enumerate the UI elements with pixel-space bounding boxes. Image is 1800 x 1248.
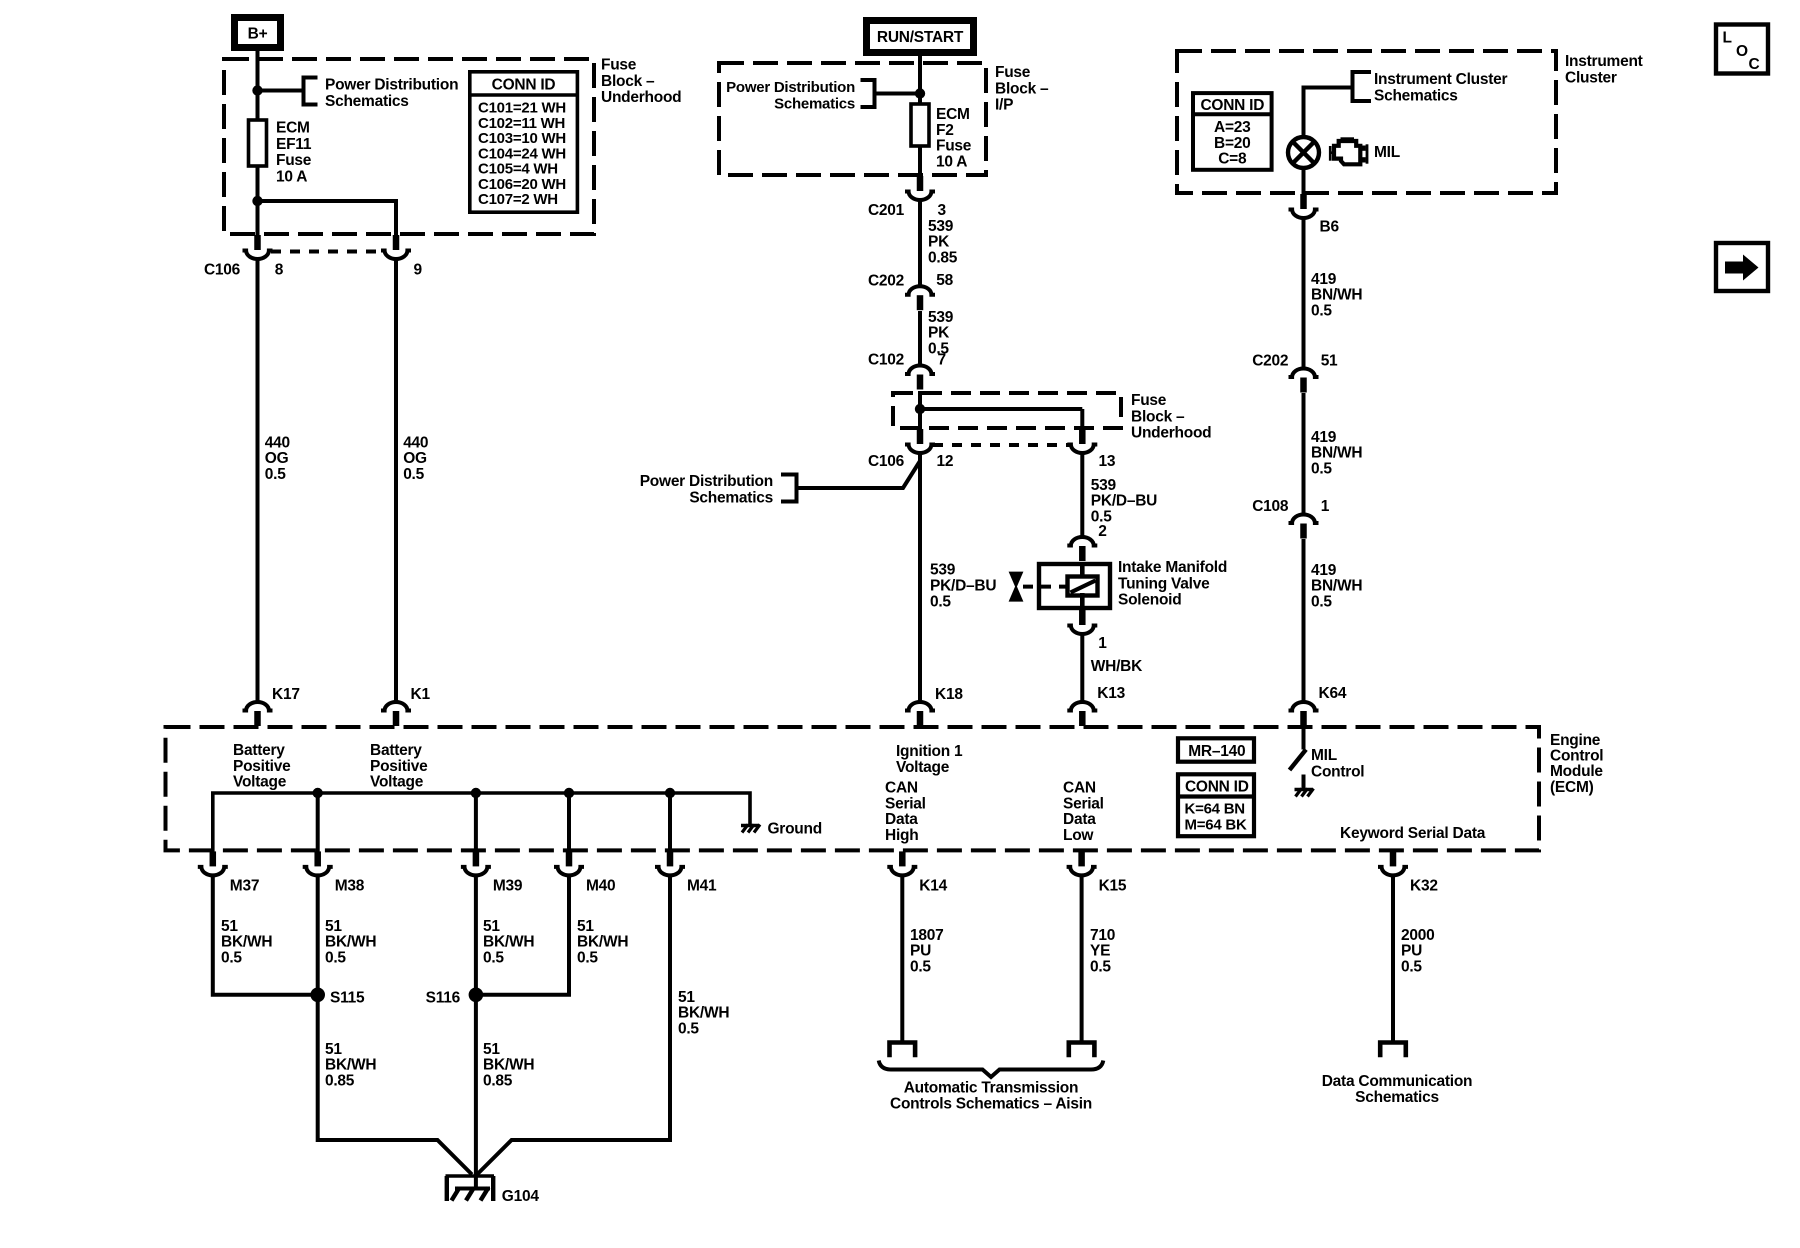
svg-text:CAN: CAN: [1063, 780, 1096, 797]
svg-text:Power Distribution: Power Distribution: [726, 79, 855, 96]
svg-text:ECM: ECM: [936, 106, 970, 123]
svg-text:CONN ID: CONN ID: [1200, 97, 1264, 114]
value label 51 BK/WH 0.85 (S116): [483, 1041, 534, 1089]
pin label B6: [1320, 219, 1340, 236]
svg-text:Power Distribution: Power Distribution: [640, 473, 773, 490]
label G104: [502, 1188, 540, 1205]
svg-text:K64: K64: [1319, 685, 1347, 702]
svg-text:0.5: 0.5: [483, 949, 504, 966]
svg-text:51: 51: [483, 1041, 500, 1058]
wire K32 down: [1391, 877, 1395, 1042]
svg-text:0.5: 0.5: [265, 466, 286, 483]
connector pin K64: [1289, 702, 1319, 726]
connector pin C202-51: [1289, 368, 1319, 392]
svg-text:Control: Control: [1311, 763, 1364, 780]
svg-text:2000: 2000: [1401, 927, 1434, 944]
svg-text:C202: C202: [868, 272, 904, 289]
svg-text:Battery: Battery: [233, 742, 285, 759]
svg-text:419: 419: [1311, 429, 1337, 446]
label Fuse Block Underhood: [601, 57, 681, 107]
pin label M38: [335, 877, 365, 894]
engine control module (ECM) dashed box: [166, 727, 1540, 850]
table CONN ID instrument cluster: [1193, 93, 1272, 170]
svg-text:Instrument: Instrument: [1565, 53, 1643, 70]
wire bus to pin 13: [920, 409, 1082, 429]
svg-text:Tuning Valve: Tuning Valve: [1118, 575, 1210, 592]
svg-text:BK/WH: BK/WH: [221, 934, 272, 951]
svg-text:419: 419: [1311, 562, 1337, 579]
svg-text:1807: 1807: [910, 927, 943, 944]
svg-text:BN/WH: BN/WH: [1311, 287, 1362, 304]
pin label K17: [272, 686, 300, 703]
svg-text:PK: PK: [928, 234, 950, 251]
svg-text:CONN ID: CONN ID: [492, 76, 556, 93]
svg-text:MIL: MIL: [1374, 144, 1400, 161]
pin number 2: [1098, 523, 1106, 540]
label Battery Positive Voltage (K17): [233, 742, 291, 791]
svg-text:12: 12: [937, 453, 954, 470]
wire fuse EF11 to junction: [256, 166, 260, 235]
pin number 9: [414, 261, 423, 278]
label ECM F2 Fuse 10 A: [936, 106, 972, 170]
value label 51 BK/WH 0.5 (M37): [221, 918, 272, 966]
svg-text:8: 8: [275, 261, 284, 278]
svg-text:M41: M41: [687, 877, 717, 894]
svg-text:Data: Data: [885, 811, 918, 828]
label Fuse Block I/P: [995, 64, 1049, 114]
svg-text:S116: S116: [426, 989, 461, 1006]
label Engine Control Module (ECM): [1550, 732, 1603, 796]
svg-text:Intake Manifold: Intake Manifold: [1118, 559, 1227, 576]
svg-text:Control: Control: [1550, 748, 1603, 765]
instrument cluster dashed box: [1177, 51, 1556, 193]
connector pin M38: [303, 851, 333, 875]
valve symbol (hourglass): [1009, 572, 1024, 602]
pin label K1: [411, 686, 431, 703]
label Power Distribution Schematics: [325, 77, 458, 110]
svg-text:CAN: CAN: [885, 780, 918, 797]
terminal K32: [1380, 1043, 1406, 1058]
pin number 1: [1098, 635, 1107, 652]
wire 440 OG left (to K17): [256, 261, 260, 702]
label C202 (right): [1252, 353, 1288, 370]
svg-text:Fuse: Fuse: [995, 64, 1031, 81]
label Automatic Transmission Controls Schematics - Aisin: [890, 1079, 1092, 1112]
connector pin C106-12: [905, 429, 935, 453]
svg-text:1: 1: [1321, 498, 1330, 515]
svg-text:Schematics: Schematics: [1374, 87, 1458, 104]
svg-text:Schematics: Schematics: [689, 489, 773, 506]
svg-text:PU: PU: [910, 943, 931, 960]
svg-text:440: 440: [403, 434, 428, 451]
value label 440 OG 0.5 (right): [403, 434, 428, 482]
label C202: [868, 272, 904, 289]
svg-text:(ECM): (ECM): [1550, 779, 1594, 796]
connector pin C201-3: [905, 176, 935, 200]
svg-text:Serial: Serial: [1063, 795, 1104, 812]
label CAN Serial Data Low: [1063, 780, 1104, 844]
connector pin K17: [243, 702, 273, 726]
wire M40 to splice S116: [476, 877, 569, 995]
svg-text:Low: Low: [1063, 827, 1094, 844]
lamp MIL (bulb): [1288, 137, 1319, 168]
svg-text:10 A: 10 A: [276, 168, 307, 185]
label Fuse Block Underhood (middle): [1131, 392, 1211, 442]
label ECM EF11 Fuse 10 A: [276, 120, 312, 186]
svg-text:BK/WH: BK/WH: [678, 1005, 729, 1022]
connector pin M39: [461, 851, 491, 875]
svg-text:0.5: 0.5: [325, 949, 346, 966]
pin label M40: [586, 877, 615, 894]
svg-text:7: 7: [938, 352, 946, 369]
label C108: [1252, 498, 1289, 515]
svg-text:Keyword Serial Data: Keyword Serial Data: [1340, 825, 1486, 842]
loc box: [1716, 25, 1768, 74]
wire junction to Power Distribution reference: [258, 89, 304, 93]
node junction M38: [313, 788, 323, 852]
pin label K13: [1097, 685, 1125, 702]
svg-text:Schematics: Schematics: [774, 95, 855, 112]
value label 440 OG 0.5 (left): [265, 434, 290, 482]
connector pin C106-9: [381, 235, 411, 259]
pin number 51: [1321, 352, 1338, 369]
svg-text:M40: M40: [586, 877, 615, 894]
wire K14 down: [900, 877, 904, 1042]
off-page reference bracket Power Distribution Schematics (I/P): [861, 80, 875, 107]
brace automatic transmission: [879, 1061, 1104, 1078]
svg-text:0.5: 0.5: [577, 949, 598, 966]
node junction M41: [665, 788, 675, 852]
node junction M39: [471, 788, 481, 852]
dashed linkage valve to coil: [1023, 585, 1067, 589]
svg-text:51: 51: [221, 918, 238, 935]
svg-text:Ignition 1: Ignition 1: [896, 743, 963, 760]
svg-text:539: 539: [1091, 477, 1117, 494]
wire S115 to ground: [318, 995, 472, 1175]
svg-text:9: 9: [414, 261, 423, 278]
value label 51 BK/WH 0.5 (M38): [325, 918, 376, 966]
svg-text:Power Distribution: Power Distribution: [325, 77, 458, 94]
terminal K15: [1069, 1043, 1095, 1058]
terminal K14: [890, 1043, 916, 1058]
svg-text:0.85: 0.85: [928, 249, 958, 266]
wire 419 BN/WH (2): [1302, 393, 1306, 513]
svg-text:51: 51: [1321, 352, 1338, 369]
value label 51 BK/WH 0.5 (M41): [678, 989, 729, 1037]
svg-text:0.5: 0.5: [1311, 460, 1332, 477]
value label 539 PK 0.85: [928, 218, 958, 266]
value label 539 PK 0.5: [928, 309, 954, 357]
svg-text:C202: C202: [1252, 353, 1288, 370]
svg-text:0.5: 0.5: [1311, 593, 1332, 610]
pin label K14: [919, 877, 947, 894]
svg-text:PK/D–BU: PK/D–BU: [1091, 493, 1157, 510]
ground G104 symbol: [446, 1176, 495, 1201]
connector pin C106-13: [1067, 429, 1097, 453]
svg-text:Block –: Block –: [995, 80, 1049, 97]
svg-text:13: 13: [1099, 453, 1116, 470]
svg-text:C106: C106: [204, 261, 241, 278]
svg-text:K32: K32: [1410, 877, 1438, 894]
label Keyword Serial Data: [1340, 825, 1486, 842]
svg-text:BK/WH: BK/WH: [483, 934, 534, 951]
svg-text:High: High: [885, 827, 918, 844]
label C201: [868, 202, 905, 219]
svg-text:Controls Schematics – Aisin: Controls Schematics – Aisin: [890, 1096, 1092, 1113]
svg-text:Voltage: Voltage: [233, 774, 287, 791]
svg-text:2: 2: [1098, 523, 1106, 540]
svg-text:Cluster: Cluster: [1565, 69, 1617, 86]
svg-text:C102: C102: [868, 352, 904, 369]
svg-text:Data: Data: [1063, 811, 1096, 828]
pin label K64: [1319, 685, 1347, 702]
svg-text:O: O: [1736, 43, 1748, 60]
svg-text:Voltage: Voltage: [370, 774, 424, 791]
connector pin C202-58: [905, 286, 935, 310]
connector pin solenoid 1: [1067, 610, 1097, 634]
value label 539 PK/D-BU 0.5 (upper): [1091, 477, 1157, 525]
label MIL: [1374, 144, 1400, 161]
label C106 (middle): [868, 453, 905, 470]
label Instrument Cluster Schematics: [1374, 71, 1508, 104]
svg-text:M38: M38: [335, 877, 365, 894]
svg-text:M39: M39: [493, 877, 523, 894]
value label 710 YE 0.5: [1090, 927, 1115, 975]
svg-text:B+: B+: [248, 26, 268, 43]
svg-text:Positive: Positive: [233, 758, 291, 775]
svg-text:0.5: 0.5: [1401, 958, 1422, 975]
wire M39 to splice S116: [474, 877, 478, 995]
connector pin C102-7: [905, 366, 935, 390]
solenoid coil box with slash: [1068, 577, 1098, 596]
connector pin K13: [1067, 702, 1097, 726]
svg-text:Voltage: Voltage: [896, 759, 950, 776]
off-page reference bracket Power Distribution Schematics (fuse block underhood): [304, 78, 318, 105]
label Ignition 1 Voltage: [896, 743, 963, 776]
svg-text:0.5: 0.5: [678, 1020, 699, 1037]
label S115: [330, 989, 365, 1006]
svg-text:0.5: 0.5: [1311, 302, 1332, 319]
svg-text:BK/WH: BK/WH: [325, 1057, 376, 1074]
svg-text:539: 539: [930, 562, 956, 579]
wire bulb to B6: [1302, 168, 1306, 194]
pin number 7: [938, 352, 946, 369]
pin label K15: [1099, 877, 1127, 894]
svg-text:51: 51: [678, 989, 695, 1006]
svg-text:0.5: 0.5: [403, 466, 424, 483]
label Battery Positive Voltage (K1): [370, 742, 428, 791]
svg-text:PU: PU: [1401, 943, 1422, 960]
value label 419 BN/WH 0.5 (2): [1311, 429, 1362, 477]
label C106: [204, 261, 241, 278]
table CONN ID (ECM): [1178, 774, 1256, 836]
svg-text:A=23: A=23: [1214, 119, 1251, 136]
connector pin M37: [198, 851, 228, 875]
value label 1807 PU 0.5: [910, 927, 943, 975]
svg-text:L: L: [1723, 30, 1732, 47]
wire 539 PK 0.5: [918, 311, 922, 364]
svg-text:1: 1: [1098, 635, 1107, 652]
wire from B+ to fuse EF11: [256, 51, 260, 120]
node junction in middle fuse block: [915, 404, 925, 414]
node junction S below fuse: [252, 196, 262, 206]
svg-text:Fuse: Fuse: [601, 57, 637, 74]
svg-text:539: 539: [928, 309, 954, 326]
wire 440 OG right (to K1): [394, 261, 398, 702]
fuse block underhood (middle) dashed box: [893, 393, 1121, 428]
value label 51 BK/WH 0.85 (S115): [325, 1041, 376, 1089]
svg-text:C107=2 WH: C107=2 WH: [478, 191, 558, 208]
connector pin solenoid 2: [1067, 537, 1097, 561]
svg-text:Instrument Cluster: Instrument Cluster: [1374, 71, 1508, 88]
label Intake Manifold Tuning Valve Solenoid: [1118, 559, 1227, 609]
svg-text:K=64 BN: K=64 BN: [1185, 801, 1245, 818]
pin number 8: [275, 261, 284, 278]
label MIL Control: [1311, 747, 1364, 780]
svg-text:BK/WH: BK/WH: [325, 934, 376, 951]
svg-text:Block –: Block –: [1131, 408, 1185, 425]
svg-text:PK/D–BU: PK/D–BU: [930, 578, 996, 595]
svg-text:Data Communication: Data Communication: [1322, 1073, 1473, 1090]
svg-text:0.5: 0.5: [930, 594, 951, 611]
switch ground stub: [1302, 775, 1306, 790]
svg-text:G104: G104: [502, 1188, 540, 1205]
ground symbol (MIL control): [1295, 789, 1314, 797]
wire from reference to ignition feed: [797, 461, 921, 488]
pin number 58: [936, 272, 953, 289]
svg-text:K1: K1: [411, 686, 431, 703]
wire 419 BN/WH (3): [1302, 539, 1306, 701]
svg-text:C201: C201: [868, 202, 905, 219]
wire M41 to ground: [477, 877, 670, 1175]
svg-text:OG: OG: [265, 450, 289, 467]
value label 419 BN/WH 0.5 (3): [1311, 562, 1362, 610]
svg-text:K13: K13: [1097, 685, 1125, 702]
svg-text:51: 51: [577, 918, 594, 935]
wire 539 PK 0.85: [918, 202, 922, 285]
icon check-engine (MIL): [1329, 137, 1369, 164]
svg-text:Schematics: Schematics: [1355, 1089, 1439, 1106]
wire M38 to splice S115: [316, 877, 320, 995]
value label 51 BK/WH 0.5 (M40): [577, 918, 628, 966]
svg-text:B6: B6: [1320, 219, 1340, 236]
svg-text:C: C: [1749, 56, 1760, 73]
svg-text:MIL: MIL: [1311, 747, 1337, 764]
svg-text:MR–140: MR–140: [1188, 743, 1245, 760]
connector pin K15: [1067, 851, 1097, 875]
wire 539 PK/D-BU to solenoid pin 2: [1080, 455, 1084, 536]
svg-text:K15: K15: [1099, 877, 1127, 894]
pin number 13: [1099, 453, 1116, 470]
wire F2 to C201: [918, 146, 922, 176]
pin number 12: [937, 453, 954, 470]
node junction at F2 feed: [915, 88, 925, 98]
connector pin K18: [905, 702, 935, 726]
connector pin M40: [554, 851, 584, 875]
wire MIL lamp to reference: [1304, 88, 1353, 138]
svg-text:C106: C106: [868, 453, 905, 470]
label Power Distribution Schematics (middle): [640, 473, 773, 506]
value label 419 BN/WH 0.5 (1): [1311, 271, 1362, 319]
svg-text:51: 51: [325, 918, 342, 935]
label C102: [868, 352, 904, 369]
wire ignition 1 voltage (to K18): [918, 455, 922, 702]
svg-text:ECM: ECM: [276, 120, 310, 137]
value label 2000 PU 0.5: [1401, 927, 1434, 975]
svg-text:Schematics: Schematics: [325, 93, 409, 110]
connector pin C108-1: [1289, 514, 1319, 538]
wire RUN/START to fuse F2: [918, 56, 922, 104]
label Power Distribution Schematics (I/P): [726, 79, 855, 112]
fuse ECM EF11 10A: [249, 120, 267, 166]
fuse block underhood dashed box: [224, 59, 594, 234]
svg-text:YE: YE: [1090, 943, 1110, 960]
solenoid coil wire bottom: [1080, 593, 1085, 610]
svg-text:WH/BK: WH/BK: [1091, 658, 1143, 675]
node junction M40: [564, 788, 574, 852]
pin label K32: [1410, 877, 1438, 894]
connector pin K1: [381, 702, 411, 726]
svg-text:K18: K18: [935, 686, 963, 703]
label Instrument Cluster: [1565, 53, 1643, 86]
value label 51 BK/WH 0.5 (M39): [483, 918, 534, 966]
value label WH/BK: [1091, 658, 1143, 675]
off-page reference bracket Power Distribution Schematics (middle): [781, 475, 797, 502]
svg-text:S115: S115: [330, 989, 365, 1006]
svg-text:BK/WH: BK/WH: [483, 1057, 534, 1074]
pin label M39: [493, 877, 523, 894]
svg-text:K14: K14: [919, 877, 947, 894]
label Data Communication Schematics: [1322, 1073, 1473, 1106]
svg-text:Underhood: Underhood: [601, 89, 681, 106]
svg-text:51: 51: [483, 918, 500, 935]
svg-text:BK/WH: BK/WH: [577, 934, 628, 951]
svg-text:C108: C108: [1252, 498, 1289, 515]
svg-text:Battery: Battery: [370, 742, 422, 759]
connector pin K14: [887, 851, 917, 875]
svg-text:0.5: 0.5: [910, 958, 931, 975]
svg-text:Serial: Serial: [885, 795, 926, 812]
pin label K18: [935, 686, 963, 703]
connector pin M41: [655, 851, 685, 875]
pin label M37: [230, 877, 259, 894]
svg-text:C=8: C=8: [1218, 151, 1247, 168]
wire M37 to S115: [213, 877, 318, 995]
svg-text:B=20: B=20: [1214, 135, 1251, 152]
power symbol B+ box: [235, 18, 281, 48]
node junction at B+ feed: [252, 85, 262, 95]
svg-text:PK: PK: [928, 325, 950, 342]
pin number 3: [938, 202, 947, 219]
svg-text:BN/WH: BN/WH: [1311, 445, 1362, 462]
svg-text:710: 710: [1090, 927, 1115, 944]
wire K15 down: [1080, 877, 1084, 1042]
connector pin K32: [1378, 851, 1408, 875]
MR-140 box: [1178, 738, 1254, 761]
svg-text:0.5: 0.5: [221, 949, 242, 966]
svg-text:EF11: EF11: [276, 136, 312, 153]
off-page reference bracket Instrument Cluster Schematics: [1353, 72, 1372, 101]
wire into middle fuse block: [918, 391, 922, 409]
svg-text:Fuse: Fuse: [276, 152, 312, 169]
svg-text:Engine: Engine: [1550, 732, 1601, 749]
svg-text:58: 58: [936, 272, 953, 289]
svg-text:F2: F2: [936, 122, 954, 139]
connector C106 dashed line (pins 8-9): [271, 250, 383, 254]
wire S116 to ground: [474, 995, 478, 1189]
svg-text:0.5: 0.5: [1090, 958, 1111, 975]
wire solenoid to K13: [1080, 636, 1084, 702]
